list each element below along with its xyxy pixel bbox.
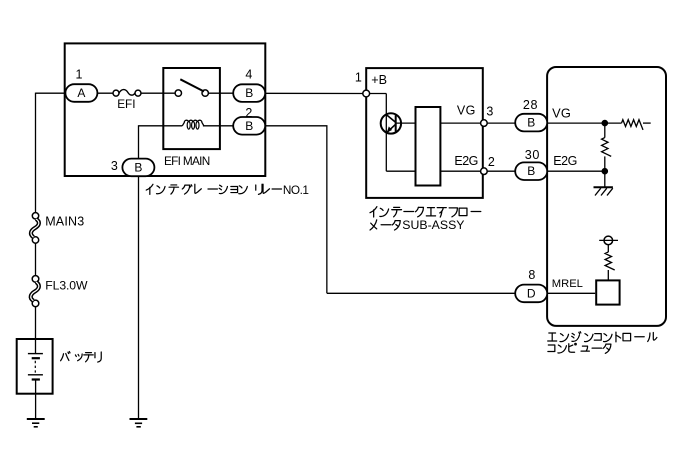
relay pin B (3) [122, 159, 154, 177]
wire: transistor base to sensor element [396, 122, 416, 124]
wire: switch contact to relay pin B4 [208, 92, 249, 94]
svg-text:EFI MAIN: EFI MAIN [164, 154, 210, 168]
fuse EFI [119, 90, 135, 96]
ECU pin B (30) E2G [515, 162, 547, 180]
svg-text:FL3.0W: FL3.0W [45, 278, 88, 292]
svg-text:B: B [527, 116, 535, 130]
svg-text:1: 1 [76, 68, 83, 82]
ground (relay pin B3) [130, 418, 148, 420]
battery label [61, 352, 70, 361]
svg-text:28: 28 [523, 98, 538, 112]
wire: battery feed from relay pin A to fusible links [36, 92, 66, 94]
svg-text:SUB-ASSY: SUB-ASSY [402, 218, 464, 232]
wire: E2G inside ECU [547, 170, 605, 172]
wire: relay pin A to fuse EFI [81, 92, 114, 94]
ECU pin B (28) VG [515, 114, 547, 132]
node: +B pin 1 of air flow meter [363, 90, 370, 97]
svg-text:A: A [77, 86, 85, 100]
svg-text:B: B [245, 119, 253, 133]
terminal (pull-up supply) [604, 236, 613, 245]
junction E2G [602, 168, 608, 174]
fusible link FL3.0W [32, 276, 39, 283]
svg-text:B: B [245, 86, 253, 100]
resistor (VG-E2G divider, vertical) [602, 138, 612, 157]
relay switch contacts [175, 90, 181, 96]
air flow meter label [370, 207, 377, 217]
wire: battery negative to ground [35, 380, 37, 419]
transistor (hot wire driver) [381, 113, 401, 133]
resistor (MREL pull-up, vertical) [607, 245, 609, 252]
svg-text:2: 2 [245, 106, 252, 120]
svg-text:NO.1: NO.1 [283, 183, 309, 197]
wire: fuse EFI to relay switch contact [141, 92, 176, 94]
battery cell plates [28, 353, 43, 355]
svg-text:EFI: EFI [117, 97, 135, 111]
fusible link MAIN3 [32, 213, 38, 219]
svg-text:VG: VG [552, 105, 571, 120]
svg-text:B: B [527, 164, 535, 178]
wire: between MAIN3 and FL3.0W [35, 243, 37, 276]
ECU label: engine control computer [548, 333, 557, 341]
svg-text:3: 3 [486, 104, 493, 118]
air flow meter box [366, 68, 483, 198]
node: VG pin 3 [481, 120, 488, 127]
wire: coil to relay pin B2 [139, 125, 183, 127]
svg-text:E2G: E2G [553, 154, 577, 168]
svg-text:MAIN3: MAIN3 [45, 214, 84, 228]
MREL driver block [596, 280, 619, 304]
wire: E2G from element to sensor pin 2 and ECU pin 30 [440, 170, 516, 172]
battery box [17, 339, 53, 394]
svg-text:B: B [134, 160, 142, 174]
svg-text:MREL: MREL [552, 278, 583, 290]
ground (battery) [27, 418, 45, 420]
wire: VG from element to sensor pin 3 and ECU pin 28 [440, 122, 516, 124]
svg-text:+B: +B [371, 73, 387, 87]
ECU box (engine control computer) [547, 67, 666, 326]
wire: FL3.0W to battery [35, 306, 37, 353]
resistor R (VG load, horizontal) [605, 122, 622, 124]
relay box: integration relay NO.1 [65, 43, 266, 176]
svg-text:2: 2 [488, 155, 495, 169]
svg-text:E2G: E2G [454, 154, 478, 168]
wire: relay pin B2 to ECU MREL (pin 8) [249, 125, 327, 127]
relay pin B (4) [233, 84, 265, 102]
wire: +B into sensor, down to element [366, 93, 386, 95]
wire: VG inside ECU [547, 122, 605, 124]
relay coil [182, 120, 204, 126]
svg-text:D: D [527, 286, 536, 300]
wire: coil feed down through relay pin B3 to ground [138, 125, 140, 418]
wire: MREL inside ECU [547, 292, 595, 294]
relay switch blade [180, 79, 204, 91]
svg-text:4: 4 [245, 68, 252, 82]
svg-text:30: 30 [525, 148, 540, 162]
svg-text:VG: VG [457, 104, 476, 118]
relay inner box (EFI MAIN relay) [163, 68, 220, 149]
relay pin A (1) [65, 84, 97, 102]
relay pin B (2) [233, 117, 265, 135]
ECU pin D (8) MREL [515, 285, 547, 303]
svg-text:8: 8 [528, 268, 535, 282]
svg-text:1: 1 [355, 70, 362, 84]
chassis ground inside ECU [604, 171, 606, 187]
relay label: integration relay NO.1 [146, 184, 153, 194]
svg-text:3: 3 [111, 159, 118, 173]
sensor element box [416, 107, 441, 186]
junction VG [602, 120, 608, 126]
node: E2G pin 2 [481, 168, 488, 175]
wire: relay pin B4 to air flow meter +B (pin 1) [249, 92, 366, 94]
